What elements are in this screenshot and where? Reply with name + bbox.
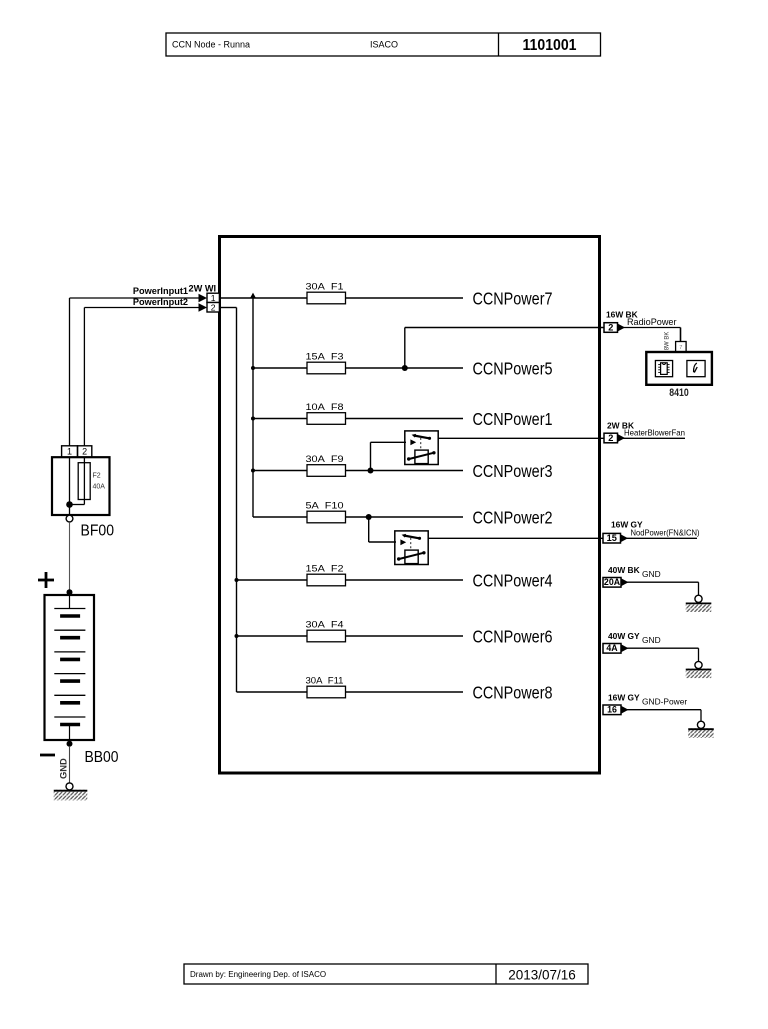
- svg-text:CCNPower2: CCNPower2: [473, 508, 553, 528]
- svg-text:NodPower(FN&ICN): NodPower(FN&ICN): [631, 528, 700, 537]
- svg-text:10A F8: 10A F8: [306, 402, 344, 413]
- svg-text:1: 1: [67, 447, 72, 457]
- svg-text:8W BK: 8W BK: [664, 332, 670, 351]
- svg-text:1: 1: [211, 293, 216, 303]
- svg-text:2: 2: [211, 302, 216, 312]
- svg-text:30A F11: 30A F11: [306, 676, 344, 687]
- svg-text:Drawn by: Engineering Dep. of: Drawn by: Engineering Dep. of ISACO: [190, 970, 326, 979]
- svg-text:40W GY: 40W GY: [608, 631, 640, 641]
- svg-text:GND: GND: [58, 758, 69, 779]
- svg-text:2013/07/16: 2013/07/16: [508, 968, 576, 983]
- svg-text:2: 2: [608, 322, 613, 332]
- svg-text:F2: F2: [93, 473, 101, 480]
- svg-text:GND-Power: GND-Power: [642, 697, 687, 707]
- svg-text:30A F9: 30A F9: [306, 454, 344, 465]
- svg-text:CCNPower7: CCNPower7: [473, 289, 553, 309]
- svg-text:CCNPower4: CCNPower4: [473, 571, 553, 591]
- svg-text:CCNPower6: CCNPower6: [473, 627, 553, 647]
- svg-text:2: 2: [608, 433, 613, 443]
- svg-text:BB00: BB00: [85, 749, 119, 766]
- svg-text:CCNPower3: CCNPower3: [473, 461, 553, 481]
- svg-text:GND: GND: [642, 635, 661, 645]
- svg-text:20A: 20A: [604, 577, 621, 587]
- svg-text:2W WI: 2W WI: [189, 283, 217, 293]
- svg-text:7: 7: [679, 345, 682, 351]
- svg-text:40W BK: 40W BK: [608, 565, 640, 575]
- svg-text:CCNPower1: CCNPower1: [473, 409, 553, 429]
- svg-text:1101001: 1101001: [523, 37, 577, 54]
- svg-text:CCNPower8: CCNPower8: [473, 683, 553, 703]
- svg-text:30A F1: 30A F1: [306, 282, 344, 293]
- svg-text:16: 16: [607, 705, 617, 715]
- svg-text:GND: GND: [642, 569, 661, 579]
- svg-text:RadioPower: RadioPower: [627, 316, 677, 327]
- svg-text:16W GY: 16W GY: [608, 693, 640, 703]
- svg-text:CCN Node - Runna: CCN Node - Runna: [172, 40, 250, 50]
- svg-text:5A F10: 5A F10: [306, 501, 344, 512]
- svg-text:15A F2: 15A F2: [306, 564, 344, 575]
- svg-text:PowerInput1: PowerInput1: [133, 286, 188, 296]
- svg-text:8410: 8410: [669, 387, 689, 399]
- svg-text:40A: 40A: [93, 484, 106, 491]
- svg-text:CCNPower5: CCNPower5: [473, 359, 553, 379]
- svg-text:15A F3: 15A F3: [306, 352, 344, 363]
- svg-text:PowerInput2: PowerInput2: [133, 297, 188, 307]
- svg-text:HeaterBlowerFan: HeaterBlowerFan: [624, 427, 685, 437]
- svg-text:BF00: BF00: [81, 523, 115, 540]
- svg-text:2: 2: [82, 447, 87, 457]
- svg-text:15: 15: [607, 533, 617, 543]
- svg-text:30A F4: 30A F4: [306, 620, 345, 631]
- svg-text:ISACO: ISACO: [370, 40, 398, 50]
- svg-text:4A: 4A: [606, 643, 618, 653]
